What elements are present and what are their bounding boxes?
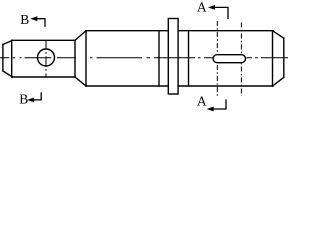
svg-text:B: B	[20, 12, 29, 27]
taper cone	[75, 31, 86, 86]
arrow B bottom	[27, 92, 41, 102]
big cylinder outline	[86, 31, 168, 86]
flange	[168, 19, 178, 95]
slot right centerline	[240, 23, 242, 97]
svg-text:A: A	[197, 0, 207, 15]
left small section outline	[3, 40, 75, 77]
svg-text:B: B	[19, 91, 28, 106]
arrow B top	[30, 16, 45, 27]
hole circle	[38, 49, 55, 66]
slot	[213, 55, 245, 63]
horizontal centerline	[0, 57, 288, 59]
slot left centerline	[216, 21, 218, 97]
arrow A top	[208, 5, 228, 19]
arrow A bottom	[207, 99, 226, 111]
right cylinder outline	[178, 31, 284, 86]
hole vertical centerline	[45, 41, 47, 77]
svg-text:A: A	[197, 94, 207, 109]
